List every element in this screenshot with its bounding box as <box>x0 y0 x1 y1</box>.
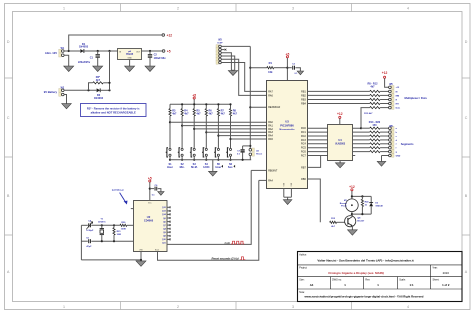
connector W6 (Segments) <box>389 126 394 157</box>
svg-text:RC4: RC4 <box>301 143 306 146</box>
resistor R11 <box>370 102 380 104</box>
wire W3 pin2 stub <box>221 49 224 51</box>
svg-text:Hour: Hour <box>215 166 221 169</box>
wire col2 mid wire <box>181 116 183 148</box>
junction gnd rail node 6 <box>229 159 231 161</box>
svg-text:+12: +12 <box>167 33 173 37</box>
wire W6 pin wire 4 <box>380 139 389 141</box>
resistor R12 <box>370 107 380 109</box>
wire D1 cathode to U1 IN <box>84 50 118 52</box>
wire U4 out7 to segment resistor <box>352 151 369 153</box>
wire U4 out4 to segment resistor <box>352 139 369 141</box>
wire U4 out3 to segment resistor <box>352 135 369 137</box>
wire U4 COM stub <box>339 119 341 125</box>
transistor Q8 BC337 <box>345 216 356 227</box>
wire MCLR node to R1 <box>250 67 266 69</box>
resistor R19 <box>370 147 380 149</box>
wire osc left rail <box>80 225 82 260</box>
wire RB6 to buzzer driver <box>308 179 321 222</box>
svg-text:+12: +12 <box>382 71 388 75</box>
capacitor C1 body <box>96 54 100 58</box>
svg-text:10M: 10M <box>117 234 121 236</box>
resistor R2 <box>93 82 103 84</box>
connector W2 (9V battery) <box>44 87 65 96</box>
junction R2 right node <box>108 82 110 84</box>
svg-text:GND: GND <box>396 155 401 157</box>
resistor R15 <box>370 131 380 133</box>
junction W1/+12/D1 node <box>68 50 70 52</box>
resistor R17 <box>370 139 380 141</box>
svg-text:+12: +12 <box>349 185 355 189</box>
diode D2 <box>97 88 101 92</box>
wire collector wire <box>351 214 353 217</box>
wire 1Hz to RB0/INT <box>251 169 266 171</box>
wire W5 pin2 wire <box>380 90 389 92</box>
ground below U2 <box>136 261 146 266</box>
push button S3 <box>190 148 195 157</box>
driver U4 ULN2803 <box>328 125 353 161</box>
svg-text:U2: U2 <box>147 215 151 219</box>
wire col5 top stub <box>217 104 219 108</box>
junction gnd rail node 2 <box>181 159 183 161</box>
svg-text:Year:: Year: <box>432 267 438 270</box>
wire U2 NC stub 210.9 <box>167 210 169 212</box>
regulator U1 78L05 <box>118 49 142 60</box>
junction col2 takeoff <box>181 125 183 127</box>
svg-text:RA6: RA6 <box>268 94 273 97</box>
svg-text:PIC16F886: PIC16F886 <box>280 123 294 127</box>
wire W6 GND wire <box>382 155 389 157</box>
resistor R5 <box>193 109 195 116</box>
wire row B left <box>81 240 87 242</box>
resistor R16 <box>370 135 380 137</box>
wire RC4 to U4 <box>308 143 328 145</box>
svg-text:+5: +5 <box>286 52 290 56</box>
svg-text:100K: 100K <box>121 228 127 230</box>
wire out1 to Ra <box>361 127 370 129</box>
note box about R2 <box>81 104 147 117</box>
svg-text:Sheet:: Sheet: <box>433 278 440 281</box>
wire W6 GND drop <box>381 156 383 162</box>
wire row B to U2 <box>91 240 133 242</box>
wire RC5 to U4 <box>308 147 328 149</box>
svg-text:VSS: VSS <box>139 249 142 251</box>
resistor R20 <box>370 151 380 153</box>
wire RC1 to U4 <box>308 131 328 133</box>
junction rail node 3 <box>193 103 195 105</box>
junction gnd rail node 4 <box>205 159 207 161</box>
wire U1 GND stub <box>129 59 131 66</box>
push button S5 <box>214 148 219 157</box>
wire W3 pin4 to ground <box>221 56 234 70</box>
power flag +5 buttons <box>192 93 196 99</box>
ground below W3 <box>228 71 237 76</box>
svg-text:GND: GND <box>127 57 132 59</box>
svg-text:RB4: RB4 <box>301 102 306 105</box>
wire +5 to U2 VCC <box>149 182 151 200</box>
wire D3 bottom stub <box>370 206 372 214</box>
capacitor C2 body <box>148 54 152 58</box>
svg-text:M: M <box>396 91 398 93</box>
wire U2 NC stub 232.2 <box>167 231 169 233</box>
wire W1 pin2 to ground <box>64 55 69 66</box>
junction rail node 6 <box>229 103 231 105</box>
junction MCLR/R1 node <box>249 67 251 69</box>
wire node to C3 <box>287 67 291 69</box>
svg-text:4k7: 4k7 <box>196 112 201 115</box>
wire W6 pin wire 6 <box>380 147 389 149</box>
wire U2 NC stub 239.4 <box>167 238 169 240</box>
wire R21 top stub <box>113 225 115 227</box>
junction collector node <box>351 213 353 215</box>
junction crystal top node <box>101 224 103 226</box>
power terminal +5 net <box>162 49 170 53</box>
svg-text:32768 Hz: 32768 Hz <box>98 222 106 224</box>
wire button 6 bottom stub <box>230 156 232 160</box>
wire RA3 line <box>206 131 266 133</box>
svg-text:RC0: RC0 <box>301 127 306 130</box>
wire R13 to base <box>337 221 348 223</box>
resistor R6 <box>205 109 207 116</box>
diode D1 <box>80 49 84 53</box>
svg-text:1 of 2: 1 of 2 <box>442 283 450 287</box>
wire RB4 to W5 <box>308 103 370 105</box>
wire W2 pin1 to D2 <box>64 89 97 91</box>
svg-text:RA5: RA5 <box>268 138 273 141</box>
wire U2 NC stub 235.8 <box>167 235 169 237</box>
svg-text:alkaline and NOT RECHARGEABLE: alkaline and NOT RECHARGEABLE <box>91 110 136 114</box>
resistor R18 <box>370 143 380 145</box>
junction col3 takeoff <box>193 128 195 130</box>
wire W5 pin5 wire <box>380 103 389 105</box>
label 32768 Hz with arrow <box>112 188 128 204</box>
svg-text:BC337: BC337 <box>357 221 365 223</box>
svg-text:2: 2 <box>177 305 179 309</box>
wire RB2 to W5 <box>308 94 370 96</box>
capacitor C5 body <box>89 239 91 243</box>
svg-text:ULN2803: ULN2803 <box>335 143 346 146</box>
wire node to C6 <box>150 188 154 190</box>
svg-text:4k7: 4k7 <box>233 112 238 115</box>
push button S6 <box>226 148 231 157</box>
svg-text:4k7: 4k7 <box>184 112 189 115</box>
junction battery feed node <box>108 50 110 52</box>
wire W5 pin3 wire <box>380 94 389 96</box>
wire RC6 to U4 <box>308 151 328 153</box>
svg-text:RA7: RA7 <box>268 90 273 93</box>
svg-text:9V Battery: 9V Battery <box>44 90 58 94</box>
junction R24 top node <box>361 195 363 197</box>
wire W3 pin6 to PIC RA7 <box>221 63 266 92</box>
microcontroller U3 PIC16F886 <box>267 81 308 189</box>
junction VDD/R1/C3 node <box>286 67 288 69</box>
wire col6 mid wire <box>230 116 232 148</box>
junction battery right node <box>108 89 110 91</box>
wire VSS stub <box>140 252 142 261</box>
svg-text:Scale:: Scale: <box>399 279 406 281</box>
connector W3 (ICSP) <box>216 39 223 64</box>
svg-text:1:1: 1:1 <box>409 283 413 287</box>
push button S4 <box>202 148 207 157</box>
junction VSS junction <box>140 259 142 261</box>
wire D3 top stub <box>370 196 372 202</box>
svg-text:78L05: 78L05 <box>126 53 134 56</box>
wire button 1 bottom stub <box>169 156 171 160</box>
wire U2 NC stub 214.4 <box>167 213 169 215</box>
wire C2 top stub <box>149 51 151 54</box>
wire col1 top stub <box>169 104 171 108</box>
title block <box>298 252 463 302</box>
svg-text:Piezo: Piezo <box>341 206 347 208</box>
wire W1 pin1 to +12 node <box>64 50 69 52</box>
wire R24 top stub <box>361 196 363 199</box>
svg-text:R1: R1 <box>269 61 273 65</box>
wire U4 out1 to Dots line <box>352 108 369 129</box>
svg-text:Sec.: Sec. <box>228 166 233 169</box>
wire W3 pin3 to ground <box>221 53 231 71</box>
capacitor C7 body <box>241 150 245 152</box>
wire RA4 line <box>218 135 266 137</box>
wire +12 to buzzer <box>351 191 353 199</box>
junction C7 gnd node <box>242 159 244 161</box>
wire W3 pin5 to PIC RA6 <box>221 59 266 95</box>
wire W5 pin6 wire <box>380 107 389 109</box>
svg-text:R13 4k7: R13 4k7 <box>364 112 373 115</box>
wire col3 mid wire <box>193 116 195 148</box>
resistor R14 <box>370 127 380 129</box>
svg-text:4k7: 4k7 <box>172 112 177 115</box>
power terminal +12 net <box>162 33 172 37</box>
wire collector rail <box>352 213 371 215</box>
wire RA2 line <box>194 128 266 130</box>
svg-text:Segments: Segments <box>401 142 414 146</box>
wire rail ground stem <box>212 160 214 172</box>
svg-text:ICSP: ICSP <box>217 42 223 44</box>
svg-text:Sh.M.: Sh.M. <box>191 166 198 169</box>
svg-text:Reset: Reset <box>256 153 262 156</box>
power flag +5 at PIC <box>286 52 290 57</box>
svg-text:Multiplexer / Dots: Multiplexer / Dots <box>405 96 428 100</box>
svg-text:Rev:: Rev: <box>365 279 370 281</box>
wire battery node to regulator input <box>109 51 111 90</box>
resistor R3 <box>169 109 171 116</box>
ground after C6 <box>158 192 164 196</box>
svg-text:RB7: RB7 <box>301 166 306 169</box>
wire A1 to ground rail <box>249 156 251 160</box>
svg-text:Author:: Author: <box>299 253 307 256</box>
ground below PIC <box>283 200 292 205</box>
svg-text:Hour: Hour <box>167 166 173 169</box>
wire +12 to W5 pin1 <box>385 78 389 87</box>
wire RB3 to W5 <box>308 99 370 101</box>
junction MCLR pin node <box>249 106 251 108</box>
ground below W6 <box>377 161 386 166</box>
connector W5 (Multiplexer / Dots) <box>389 84 394 109</box>
junction gnd rail node 1 <box>169 159 171 161</box>
wire 1 Hz net <box>167 170 251 244</box>
svg-text:HH: HH <box>396 103 400 105</box>
svg-text:RC6: RC6 <box>301 151 306 154</box>
wire col1 mid wire <box>169 116 171 148</box>
wire VSS join <box>284 196 292 198</box>
wire button 5 bottom stub <box>217 156 219 160</box>
svg-text:C: C <box>465 116 468 120</box>
wire U2 clk stub <box>131 208 134 210</box>
svg-text:4k7: 4k7 <box>209 112 214 115</box>
svg-text:1 Hz: 1 Hz <box>224 241 230 245</box>
svg-text:1N4148: 1N4148 <box>375 205 383 208</box>
svg-text:RC7: RC7 <box>301 154 306 157</box>
svg-text:RB0/INT: RB0/INT <box>268 169 278 172</box>
wire +12 rail <box>69 35 163 51</box>
wire D2 cathode to node <box>100 89 109 91</box>
wire RC7 to U4 in8 <box>308 155 328 157</box>
wire col4 mid wire <box>205 116 207 148</box>
svg-text:3: 3 <box>292 7 294 11</box>
resistor R7 <box>217 109 219 116</box>
wire R1 to +5 node <box>274 67 288 69</box>
power flag +12 at U4 <box>337 112 343 118</box>
capacitor C4 body <box>89 223 91 227</box>
wire RC0 to U4 <box>308 127 328 129</box>
wire RB1 to W5 <box>308 90 370 92</box>
junction C6 node <box>149 188 151 190</box>
wire col4 top stub <box>205 104 207 108</box>
wire button pull-up rail <box>170 103 231 105</box>
wire RA1 line <box>182 125 266 127</box>
wire row A left <box>81 224 87 226</box>
svg-text:+5: +5 <box>148 176 152 180</box>
wire U2 NC stub 228.7 <box>167 228 169 230</box>
capacitor C3 body <box>293 66 295 70</box>
ground below C2 <box>145 66 155 71</box>
wire R24 bottom stub <box>361 207 363 215</box>
svg-text:4k7: 4k7 <box>96 78 101 82</box>
wire reset-seconds to RA4 <box>259 179 267 181</box>
wire U1 OUT to +5 <box>142 50 163 52</box>
wire C3 to ground <box>295 68 300 71</box>
wire C1 top stub <box>97 51 99 54</box>
ground below U1 <box>125 66 135 71</box>
ground below W2 <box>62 104 72 109</box>
wire C6 to ground <box>158 189 161 192</box>
wire U4 out2 to segment resistor <box>352 131 369 133</box>
svg-text:U3: U3 <box>285 120 289 124</box>
svg-text:47pF: 47pF <box>86 245 92 248</box>
wire col5 mid wire <box>217 116 219 148</box>
svg-text:RC2: RC2 <box>301 135 306 138</box>
svg-text:Note:: Note: <box>299 291 305 294</box>
wire U2 NC stub 221.6 <box>167 221 169 223</box>
svg-text:C: C <box>7 116 10 120</box>
wire C7 bottom stub <box>242 153 244 160</box>
svg-text:RB2: RB2 <box>301 94 306 97</box>
svg-text:4k7: 4k7 <box>370 86 375 89</box>
svg-text:1: 1 <box>63 7 65 11</box>
svg-text:RC1: RC1 <box>301 131 306 134</box>
svg-text:1N4003: 1N4003 <box>94 96 104 100</box>
power flag +12 at W5 <box>382 71 388 78</box>
capacitor C6 body <box>155 187 157 191</box>
svg-text:Alim. 12V: Alim. 12V <box>45 51 57 55</box>
svg-text:2: 2 <box>177 7 179 11</box>
wire col2 top stub <box>181 104 183 108</box>
svg-text:D: D <box>7 40 10 44</box>
connector A1 (Reset) <box>249 148 254 156</box>
svg-text:+12: +12 <box>337 112 343 116</box>
junction dots takeoff <box>360 127 362 129</box>
wire VSS stem <box>287 197 289 200</box>
wire U2 NC stub 207.3 <box>167 206 169 208</box>
wire W2 pin2 to ground <box>64 95 67 104</box>
junction buzzer top node <box>351 195 353 197</box>
junction R21 bottom node <box>113 240 115 242</box>
push button S1 <box>166 148 171 157</box>
svg-text:+5: +5 <box>167 49 171 53</box>
wire R21 bottom stub <box>113 235 115 241</box>
svg-text:RC5: RC5 <box>301 147 306 150</box>
wire RC3 to U4 <box>308 139 328 141</box>
svg-text:Microcontroller: Microcontroller <box>279 128 294 131</box>
svg-text:1: 1 <box>63 305 65 309</box>
ground below W1 <box>64 66 74 71</box>
diode D3 <box>369 203 373 207</box>
wire buzzer top rail <box>352 195 371 197</box>
wire W5 pin4 wire <box>380 99 389 101</box>
svg-text:RA4: RA4 <box>268 179 273 182</box>
wire emitter wire <box>351 226 353 230</box>
resistor R1 <box>267 67 274 69</box>
wire rail to VSS <box>81 259 141 261</box>
svg-text:MM: MM <box>396 95 400 97</box>
svg-text:10k: 10k <box>268 70 273 74</box>
junction col1 takeoff <box>169 121 171 123</box>
junction gnd rail node 3 <box>193 159 195 161</box>
junction rail node 4 <box>205 103 207 105</box>
resistor R9 <box>370 94 380 96</box>
svg-text:Min.: Min. <box>180 166 185 169</box>
power flag +5 at U2 <box>148 176 152 182</box>
svg-text:2016: 2016 <box>443 271 450 275</box>
junction col5 takeoff <box>217 135 219 137</box>
wire U4 out8 stub <box>352 155 355 157</box>
wire RA0 line <box>170 121 267 123</box>
wire row A middle <box>91 224 120 226</box>
resistor R8 <box>229 109 231 116</box>
resistor R24 <box>361 199 363 206</box>
svg-text:RB3: RB3 <box>301 98 306 101</box>
power flag +12 buzzer <box>349 185 355 191</box>
connector W1 (Alim. 12V input) <box>45 48 65 57</box>
wire W3 pin1 to MCLR net <box>221 45 250 47</box>
wire C2 to ground <box>149 58 151 66</box>
junction col4 takeoff <box>205 131 207 133</box>
wire +5 to PIC VDD <box>286 58 288 80</box>
ground below U4 <box>335 163 344 168</box>
wire VSS2 stub <box>290 189 292 198</box>
svg-text:RB1: RB1 <box>301 90 306 93</box>
svg-text:4k7: 4k7 <box>221 112 226 115</box>
ground below buttons <box>209 171 218 176</box>
wire W6 pin wire 7 <box>380 151 389 153</box>
svg-text:150: 150 <box>372 124 377 127</box>
wire VSS1 stub <box>283 189 285 198</box>
ground below Q8 <box>348 230 358 235</box>
wire row A to U2 pin <box>127 224 134 226</box>
junction MCLR/C7 node <box>249 145 251 147</box>
svg-text:RE3/MCLR: RE3/MCLR <box>268 106 280 109</box>
wire W6 pin wire 5 <box>380 143 389 145</box>
